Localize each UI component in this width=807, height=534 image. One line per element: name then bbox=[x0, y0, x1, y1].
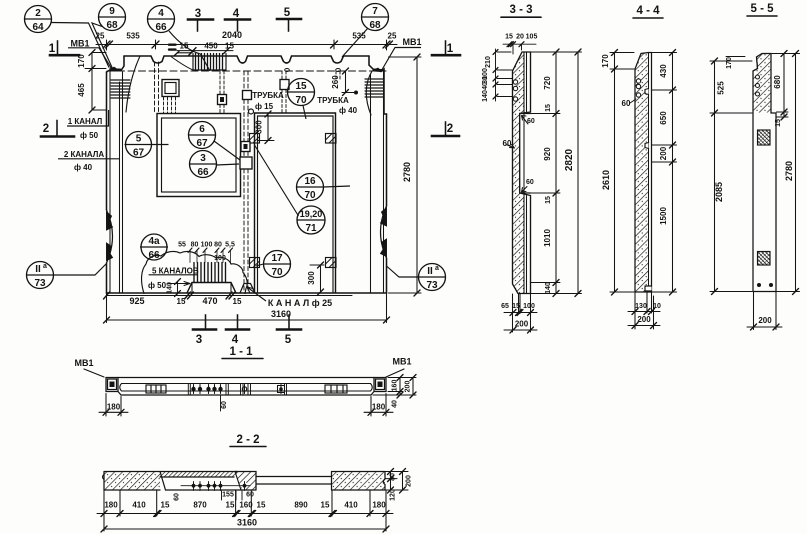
callout 16/70 bbox=[297, 174, 324, 201]
dim 300 door bottom bbox=[310, 265, 324, 292]
svg-text:180: 180 bbox=[372, 403, 386, 412]
channel circles bbox=[513, 80, 517, 84]
right grate bbox=[325, 385, 347, 393]
mark 1 right bbox=[432, 54, 460, 57]
svg-text:15: 15 bbox=[545, 196, 552, 204]
svg-text:ф 50: ф 50 bbox=[80, 131, 99, 140]
inner slab bbox=[120, 384, 373, 392]
svg-text:2 КАНАЛА: 2 КАНАЛА bbox=[64, 150, 105, 159]
channel dots bbox=[194, 385, 282, 394]
60 leader bbox=[630, 99, 636, 103]
svg-text:55: 55 bbox=[178, 242, 186, 249]
svg-text:170: 170 bbox=[77, 54, 86, 68]
dims 180 right bbox=[364, 394, 393, 417]
svg-text:ф 40: ф 40 bbox=[339, 106, 358, 115]
callout 19,20/71 bbox=[297, 206, 325, 234]
svg-text:15: 15 bbox=[295, 81, 307, 92]
top hatched strip 450 bbox=[193, 54, 226, 71]
svg-text:120: 120 bbox=[390, 489, 397, 501]
svg-text:60: 60 bbox=[174, 493, 181, 501]
svg-text:170: 170 bbox=[601, 54, 610, 68]
dashed leads below X-box bbox=[164, 97, 176, 113]
bottom dims bbox=[628, 292, 660, 329]
svg-text:ф 40: ф 40 bbox=[74, 163, 93, 172]
callout IIa/73 left bbox=[27, 262, 54, 289]
svg-text:4: 4 bbox=[158, 8, 164, 19]
svg-text:180: 180 bbox=[372, 501, 386, 510]
bar bbox=[753, 113, 776, 292]
svg-text:1: 1 bbox=[49, 43, 56, 55]
section cut marks top bbox=[41, 19, 460, 330]
svg-text:20: 20 bbox=[516, 34, 524, 41]
svg-text:465: 465 bbox=[77, 83, 86, 97]
bar outline bbox=[106, 377, 386, 379]
svg-text:470: 470 bbox=[202, 296, 217, 306]
svg-text:4: 4 bbox=[233, 8, 240, 20]
header 4-4 bbox=[633, 17, 663, 19]
level mark = bbox=[169, 45, 176, 50]
svg-text:25: 25 bbox=[96, 32, 105, 41]
svg-text:15: 15 bbox=[225, 42, 234, 51]
svg-text:15: 15 bbox=[505, 34, 513, 41]
svg-text:70: 70 bbox=[295, 95, 307, 106]
svg-text:2: 2 bbox=[43, 123, 49, 135]
callout circles bbox=[25, 4, 446, 291]
svg-text:80: 80 bbox=[214, 242, 222, 249]
dim 300 door top bbox=[258, 114, 274, 141]
mark 1 left bbox=[50, 54, 79, 57]
svg-text:МВ1: МВ1 bbox=[392, 357, 411, 367]
svg-text:2780: 2780 bbox=[402, 162, 412, 182]
top-left corner profile bbox=[107, 56, 125, 72]
svg-text:МВ1: МВ1 bbox=[70, 39, 89, 49]
mark 2 left bbox=[41, 135, 74, 138]
svg-text:140: 140 bbox=[167, 282, 174, 294]
header 1-1 bbox=[222, 358, 263, 360]
top-right corner profile bbox=[369, 56, 387, 114]
mark 3 top bbox=[188, 18, 213, 21]
svg-text:ТРУБКА: ТРУБКА bbox=[252, 91, 284, 100]
svg-text:180: 180 bbox=[107, 403, 121, 412]
svg-text:a: a bbox=[43, 263, 47, 270]
svg-text:5: 5 bbox=[284, 7, 291, 19]
dim 140 pedestal bbox=[177, 282, 179, 294]
svg-text:3160: 3160 bbox=[237, 518, 257, 528]
channel circles bbox=[181, 485, 250, 487]
tube f40 box right bbox=[280, 80, 289, 90]
svg-text:15: 15 bbox=[180, 42, 189, 51]
left dims bbox=[610, 53, 634, 293]
60 tick bbox=[220, 395, 222, 411]
svg-text:1 КАНАЛ: 1 КАНАЛ bbox=[68, 117, 103, 126]
svg-text:525: 525 bbox=[717, 81, 726, 95]
svg-text:160: 160 bbox=[392, 380, 399, 392]
svg-text:870: 870 bbox=[193, 501, 207, 510]
mark 4 top bbox=[225, 18, 250, 21]
svg-text:ф 50: ф 50 bbox=[148, 281, 167, 290]
svg-text:155: 155 bbox=[222, 492, 234, 499]
svg-text:3: 3 bbox=[195, 8, 201, 20]
header 3-3 underline bbox=[501, 16, 541, 18]
dims 180 left bbox=[99, 394, 128, 417]
dim row1 bbox=[97, 490, 393, 516]
5 kanalov underline bbox=[149, 274, 198, 276]
callout 3/66 bbox=[190, 151, 217, 178]
svg-text:4 - 4: 4 - 4 bbox=[636, 5, 660, 17]
MB1 cap boxes bbox=[108, 379, 117, 390]
right dims bbox=[772, 54, 800, 292]
svg-text:300: 300 bbox=[307, 271, 316, 285]
kanal f25 leader bbox=[247, 287, 266, 301]
dim 170/465 left bbox=[85, 53, 106, 111]
svg-text:2 - 2: 2 - 2 bbox=[236, 434, 259, 446]
right edge joint bumps bbox=[381, 206, 387, 258]
svg-text:3: 3 bbox=[196, 334, 202, 346]
window opening rect bbox=[157, 114, 241, 197]
svg-text:15: 15 bbox=[257, 501, 266, 510]
svg-text:60: 60 bbox=[526, 179, 534, 186]
MB1 leaders bbox=[68, 48, 112, 69]
svg-text:1500: 1500 bbox=[659, 207, 668, 225]
right rib line bbox=[370, 74, 372, 293]
small dark box on lead pair bbox=[218, 95, 227, 105]
right stacked dims bbox=[385, 472, 408, 491]
top hatched part bbox=[753, 54, 771, 114]
svg-text:К А Н А Л ф 25: К А Н А Л ф 25 bbox=[268, 298, 332, 308]
left edge joint bumps bbox=[107, 210, 113, 263]
svg-text:7: 7 bbox=[372, 6, 378, 17]
wedge solid chunk bbox=[166, 472, 257, 491]
svg-text:130: 130 bbox=[635, 303, 647, 310]
small ellipses under notches bbox=[285, 69, 290, 72]
panel top edge with notches bbox=[124, 56, 369, 63]
svg-text:15: 15 bbox=[512, 303, 520, 310]
left solid block bbox=[104, 472, 160, 491]
svg-text:160: 160 bbox=[239, 501, 253, 510]
right outer edge bbox=[386, 114, 388, 293]
bottom dim row2 3160 bbox=[107, 293, 387, 323]
svg-text:15: 15 bbox=[177, 297, 186, 306]
svg-text:ф 15: ф 15 bbox=[255, 102, 274, 111]
box A on channel pair bbox=[241, 142, 250, 152]
right corner inner arc bbox=[366, 71, 372, 115]
svg-text:60: 60 bbox=[527, 118, 535, 125]
svg-text:15: 15 bbox=[226, 501, 235, 510]
callout 17/70 bbox=[264, 251, 291, 278]
svg-text:73: 73 bbox=[34, 278, 46, 289]
svg-text:5 КАНАЛОВ: 5 КАНАЛОВ bbox=[152, 267, 199, 276]
callout IIa/73 right bbox=[419, 264, 446, 291]
svg-text:100: 100 bbox=[523, 303, 535, 310]
bottom dots bbox=[757, 283, 761, 287]
svg-text:71: 71 bbox=[305, 223, 317, 234]
svg-text:73: 73 bbox=[426, 280, 438, 291]
svg-text:3: 3 bbox=[200, 153, 206, 164]
svg-text:15: 15 bbox=[321, 501, 330, 510]
door embedded tabs bbox=[250, 134, 260, 144]
bottom edge bbox=[107, 292, 387, 294]
dashdot levels bbox=[652, 89, 668, 91]
left joint hatch block bbox=[111, 80, 130, 98]
left rib lines bbox=[120, 72, 123, 293]
svg-text:65: 65 bbox=[501, 303, 509, 310]
svg-text:70: 70 bbox=[271, 267, 283, 278]
svg-text:66: 66 bbox=[155, 22, 167, 33]
svg-text:140: 140 bbox=[545, 282, 552, 294]
svg-text:15: 15 bbox=[161, 501, 170, 510]
svg-text:200: 200 bbox=[659, 146, 668, 160]
svg-text:15: 15 bbox=[233, 297, 242, 306]
right joint hatch block bbox=[365, 79, 384, 97]
callout 15/70 bbox=[288, 79, 315, 106]
tube box f15 bbox=[243, 91, 252, 100]
svg-text:a: a bbox=[435, 265, 439, 272]
electrical box with X at top bbox=[162, 80, 179, 97]
top dims 15 20 105 bbox=[503, 44, 536, 54]
svg-text:1010: 1010 bbox=[543, 229, 552, 247]
svg-text:60: 60 bbox=[246, 492, 254, 499]
svg-text:260: 260 bbox=[331, 75, 340, 89]
svg-text:40: 40 bbox=[482, 82, 489, 90]
svg-text:4: 4 bbox=[232, 334, 239, 346]
svg-text:180: 180 bbox=[104, 501, 118, 510]
svg-text:200: 200 bbox=[758, 316, 772, 325]
svg-text:6: 6 bbox=[199, 124, 205, 135]
left outer edge bbox=[106, 72, 108, 293]
svg-text:1: 1 bbox=[447, 43, 454, 55]
svg-text:105: 105 bbox=[526, 34, 538, 41]
svg-text:200: 200 bbox=[406, 475, 413, 487]
revision cloud bbox=[142, 251, 248, 293]
svg-text:2780: 2780 bbox=[784, 161, 794, 181]
bottom dim row1 bbox=[107, 295, 353, 297]
ledge steps bbox=[520, 114, 531, 194]
callout 2/64 bbox=[25, 6, 52, 33]
svg-text:4a: 4a bbox=[148, 236, 160, 247]
svg-text:9: 9 bbox=[109, 6, 115, 17]
svg-text:210: 210 bbox=[485, 56, 492, 68]
svg-text:15: 15 bbox=[775, 119, 782, 127]
svg-text:100: 100 bbox=[201, 242, 213, 249]
svg-text:67: 67 bbox=[133, 148, 145, 159]
f50 arrow bbox=[168, 282, 190, 286]
svg-text:МВ1: МВ1 bbox=[74, 358, 93, 368]
svg-text:890: 890 bbox=[294, 501, 308, 510]
tube f15 end circle bbox=[249, 109, 254, 114]
svg-text:2: 2 bbox=[35, 8, 41, 19]
svg-text:64: 64 bbox=[32, 22, 44, 33]
left small dims bbox=[496, 49, 513, 101]
mark 4 bottom bbox=[226, 328, 249, 331]
svg-text:МВ1: МВ1 bbox=[402, 37, 421, 47]
svg-text:3 - 3: 3 - 3 bbox=[509, 4, 532, 16]
right solid block bbox=[332, 472, 386, 491]
60 leaders bbox=[506, 145, 515, 149]
mark 3 bottom bbox=[193, 328, 216, 331]
recess top strip bbox=[160, 472, 237, 491]
svg-text:920: 920 bbox=[543, 147, 552, 161]
svg-text:60: 60 bbox=[622, 99, 631, 108]
svg-text:70: 70 bbox=[304, 190, 316, 201]
header 5-5 bbox=[747, 15, 777, 17]
svg-text:5: 5 bbox=[285, 334, 292, 346]
callout 7/68 bbox=[362, 4, 389, 31]
svg-text:II: II bbox=[35, 264, 41, 275]
bar outline bbox=[513, 52, 531, 294]
svg-text:25: 25 bbox=[388, 32, 397, 41]
svg-text:650: 650 bbox=[659, 111, 668, 125]
svg-text:5,5: 5,5 bbox=[225, 242, 235, 249]
dim 2780 right bbox=[389, 57, 422, 293]
svg-text:100: 100 bbox=[214, 255, 226, 262]
svg-text:200: 200 bbox=[637, 315, 651, 324]
pedestal under channels bbox=[187, 283, 236, 294]
callout 5/67 bbox=[126, 132, 152, 158]
dashed pair under notch1 bbox=[155, 62, 159, 112]
dim 260 bbox=[342, 71, 349, 93]
svg-text:80: 80 bbox=[191, 242, 199, 249]
svg-text:200: 200 bbox=[405, 381, 412, 393]
callout 4/66 bbox=[148, 6, 175, 33]
bar outline bbox=[635, 53, 652, 293]
svg-text:410: 410 bbox=[344, 501, 358, 510]
door opening rect bbox=[255, 113, 336, 293]
5 channels block bottom left bbox=[194, 263, 226, 283]
svg-text:ТРУБКА: ТРУБКА bbox=[317, 96, 349, 105]
svg-text:16: 16 bbox=[304, 176, 316, 187]
dashed pair under notch4 bbox=[336, 71, 340, 79]
svg-text:10: 10 bbox=[653, 303, 661, 310]
svg-text:2820: 2820 bbox=[564, 148, 575, 171]
svg-text:410: 410 bbox=[132, 501, 146, 510]
callout 6/67 bbox=[189, 122, 216, 149]
header 2-2 bbox=[230, 446, 266, 448]
dim 450 line bbox=[177, 51, 233, 53]
mark 5 bottom bbox=[277, 328, 301, 331]
pedestal under channel f25 bbox=[240, 284, 255, 294]
svg-text:68: 68 bbox=[106, 20, 118, 31]
main view texts bbox=[32, 6, 453, 346]
junction white box mid bbox=[240, 157, 252, 169]
svg-text:300: 300 bbox=[255, 120, 264, 134]
svg-text:II: II bbox=[427, 266, 433, 277]
left corner inner arc bbox=[126, 56, 140, 112]
right dim lines bbox=[556, 52, 578, 294]
mark 2 right bbox=[432, 135, 459, 138]
left inner edge line bbox=[109, 68, 111, 293]
svg-text:2: 2 bbox=[447, 123, 453, 135]
svg-text:67: 67 bbox=[196, 138, 208, 149]
left grate bbox=[146, 385, 166, 393]
web bbox=[256, 477, 332, 485]
svg-text:5 - 5: 5 - 5 bbox=[750, 3, 774, 15]
mark 5 top bbox=[277, 18, 301, 21]
callout 9/68 bbox=[99, 4, 126, 31]
svg-text:66: 66 bbox=[148, 250, 160, 261]
MB1 leaders bbox=[84, 369, 104, 377]
svg-text:80: 80 bbox=[390, 473, 397, 481]
svg-text:2040: 2040 bbox=[222, 30, 242, 40]
svg-text:140: 140 bbox=[482, 90, 489, 102]
bottom dims bbox=[747, 292, 782, 330]
right stacked dims bbox=[373, 378, 416, 396]
svg-text:2085: 2085 bbox=[714, 182, 724, 202]
svg-text:15: 15 bbox=[545, 104, 552, 112]
svg-text:5: 5 bbox=[136, 134, 142, 145]
bar core hatch fill bbox=[513, 53, 524, 294]
callout 4a/66 bbox=[141, 234, 167, 260]
svg-text:535: 535 bbox=[126, 32, 140, 41]
svg-text:200: 200 bbox=[515, 320, 529, 329]
svg-text:40: 40 bbox=[392, 400, 399, 408]
svg-text:19,20: 19,20 bbox=[300, 209, 323, 219]
right inner edge line bbox=[383, 70, 385, 293]
horizontal dashed axis line bbox=[107, 70, 386, 72]
svg-text:680: 680 bbox=[773, 75, 782, 89]
facing layer lines bbox=[523, 52, 525, 294]
svg-text:17: 17 bbox=[271, 253, 283, 264]
svg-text:170: 170 bbox=[726, 57, 733, 69]
bottom dims bbox=[504, 294, 537, 332]
svg-text:925: 925 bbox=[129, 296, 144, 306]
svg-text:3160: 3160 bbox=[271, 309, 291, 319]
svg-text:720: 720 bbox=[543, 76, 552, 90]
dim row2 bbox=[104, 516, 386, 531]
channel dashed pair center bbox=[244, 71, 248, 291]
small dims 155/60 bbox=[222, 491, 243, 500]
kanal leaders bbox=[67, 110, 109, 126]
embedded squares bbox=[758, 130, 771, 145]
svg-text:66: 66 bbox=[197, 167, 209, 178]
right dims bbox=[652, 53, 677, 293]
svg-text:68: 68 bbox=[369, 20, 381, 31]
svg-text:535: 535 bbox=[352, 32, 366, 41]
svg-text:450: 450 bbox=[204, 41, 218, 50]
svg-text:60: 60 bbox=[503, 139, 512, 148]
svg-text:1 - 1: 1 - 1 bbox=[229, 346, 253, 358]
svg-text:2610: 2610 bbox=[601, 170, 611, 190]
svg-text:430: 430 bbox=[659, 64, 668, 78]
top main dim line bbox=[96, 44, 397, 46]
left dims bbox=[710, 61, 752, 292]
svg-text:60: 60 bbox=[221, 401, 228, 409]
